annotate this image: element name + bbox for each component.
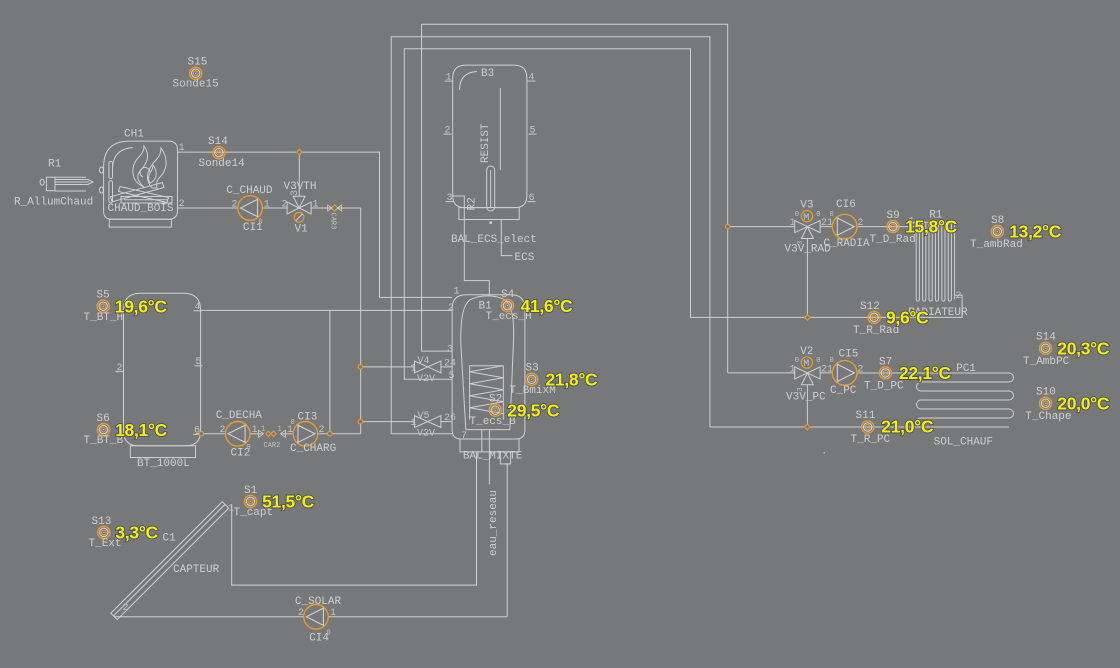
svg-text:3: 3: [290, 190, 301, 196]
svg-text:C_RADIA: C_RADIA: [823, 238, 870, 250]
wire vertical V1 outlet down to charge line: [360, 208, 362, 434]
resistor R1 R_AllumChaud ignition element: [14, 159, 93, 209]
svg-text:S7: S7: [879, 356, 892, 368]
check valve CAR2: [259, 425, 286, 449]
svg-text:2: 2: [857, 364, 863, 375]
svg-text:5: 5: [196, 357, 202, 368]
stray dot: [823, 452, 825, 454]
svg-text:13,2°C: 13,2°C: [1009, 222, 1062, 242]
wire eau_reseau stub: [488, 430, 490, 485]
svg-text:4: 4: [529, 72, 535, 83]
valve V4 V2V two-way: [411, 356, 441, 385]
svg-text:1: 1: [278, 425, 282, 433]
sensor S12: [853, 301, 929, 337]
svg-text:3: 3: [447, 193, 453, 204]
svg-text:21,0°C: 21,0°C: [881, 417, 934, 437]
svg-text:2: 2: [445, 125, 451, 136]
svg-text:6: 6: [529, 193, 535, 204]
svg-text:18,1°C: 18,1°C: [115, 420, 168, 440]
svg-text:1: 1: [454, 286, 460, 297]
pump C_PC CI5: [832, 361, 857, 386]
svg-text:V5: V5: [418, 411, 430, 422]
svg-text:2: 2: [857, 218, 863, 229]
wire B3 port3 down to BAL_MIXTE dome: [453, 196, 490, 297]
svg-text:V3: V3: [800, 200, 813, 212]
svg-text:M: M: [803, 213, 809, 224]
wire pipe-C tank port5 / radiator return loop: [404, 49, 962, 380]
svg-text:2: 2: [448, 303, 454, 314]
svg-text:3: 3: [447, 344, 453, 355]
wire solar pump line to collector bottom: [115, 616, 304, 618]
svg-text:2: 2: [298, 608, 304, 619]
wire branch to V3 port 1: [728, 226, 795, 228]
wire boiler supply to tank port 1: [178, 152, 453, 297]
wire V5 inlet and outlet to tank port 6: [360, 421, 414, 423]
svg-text:C_SOLAR: C_SOLAR: [295, 596, 342, 608]
svg-text:R2: R2: [467, 197, 479, 210]
svg-text:7: 7: [461, 431, 467, 442]
svg-text:24: 24: [444, 358, 456, 369]
svg-text:29,5°C: 29,5°C: [507, 401, 560, 421]
svg-text:CI6: CI6: [836, 199, 856, 211]
svg-text:S14: S14: [208, 136, 228, 148]
svg-text:S6: S6: [97, 413, 110, 425]
boiler flame icon: [133, 146, 166, 188]
svg-text:3,3°C: 3,3°C: [115, 523, 158, 543]
svg-text:21: 21: [821, 218, 833, 229]
svg-text:0: 0: [816, 211, 820, 219]
svg-text:CI3: CI3: [298, 412, 318, 424]
svg-text:5: 5: [449, 371, 455, 382]
svg-text:1: 1: [179, 143, 185, 154]
valve V3 V3V_RAD motorised 3-way: [785, 200, 834, 256]
sensor S14-boiler: [199, 136, 246, 170]
svg-text:R1: R1: [48, 159, 62, 171]
svg-text:R_AllumChaud: R_AllumChaud: [14, 196, 93, 208]
svg-text:BAL_ECS_elect: BAL_ECS_elect: [451, 234, 537, 246]
svg-text:S5: S5: [97, 290, 110, 302]
svg-text:1: 1: [261, 425, 265, 433]
svg-text:S10: S10: [1036, 387, 1056, 399]
radiator R1 RADIATEUR: [908, 209, 968, 318]
svg-text:CI5: CI5: [839, 349, 859, 361]
svg-text:3: 3: [797, 241, 805, 245]
svg-text:0: 0: [816, 357, 820, 365]
sensor S6: [84, 413, 168, 447]
svg-text:B3: B3: [481, 68, 494, 80]
svg-text:1: 1: [446, 72, 452, 83]
pump C_CHARG CI3: [293, 422, 318, 447]
svg-text:0: 0: [830, 211, 834, 219]
junction diamond boiler supply tee: [297, 149, 303, 155]
svg-text:V4: V4: [418, 356, 430, 367]
junction rings charge circuit: [358, 365, 363, 370]
svg-text:RESIST: RESIST: [480, 123, 492, 163]
svg-text:2: 2: [220, 425, 226, 436]
svg-text:ECS: ECS: [515, 252, 535, 264]
svg-text:C_CHAUD: C_CHAUD: [226, 185, 273, 197]
svg-text:1: 1: [411, 418, 417, 429]
svg-text:CAR2: CAR2: [264, 442, 281, 450]
solar collector C1 CAPTEUR: [111, 502, 234, 620]
check valve CAR3: [328, 205, 342, 230]
svg-text:CAR3: CAR3: [329, 213, 337, 230]
svg-text:1: 1: [790, 364, 796, 375]
wire pipe-B tank bottom / PC return loop: [391, 37, 710, 434]
wire tank interior drop to pedestal: [481, 430, 483, 452]
svg-text:0: 0: [247, 444, 251, 452]
svg-text:2: 2: [123, 603, 129, 614]
sensor S8: [970, 215, 1062, 251]
svg-text:CH1: CH1: [124, 128, 144, 140]
tank BT_1000L buffer: [124, 293, 201, 470]
boiler logs: [111, 183, 173, 204]
svg-text:20,0°C: 20,0°C: [1057, 393, 1110, 413]
svg-text:1: 1: [411, 363, 417, 374]
svg-text:0: 0: [327, 630, 331, 638]
svg-text:S3: S3: [526, 363, 539, 375]
pump C_DECHA CI2: [225, 422, 250, 447]
svg-text:CHAUD_BOIS: CHAUD_BOIS: [108, 203, 174, 215]
sensor S2: [470, 394, 560, 428]
svg-text:26: 26: [444, 413, 456, 424]
sensor S1: [234, 485, 315, 519]
svg-text:S2: S2: [489, 394, 502, 406]
svg-text:20,3°C: 20,3°C: [1057, 338, 1110, 358]
valve V5 V2V two-way: [411, 411, 441, 440]
svg-text:S8: S8: [991, 215, 1004, 227]
svg-text:S15: S15: [188, 57, 208, 69]
sensor S11: [851, 410, 934, 446]
svg-text:5: 5: [530, 125, 536, 136]
svg-text:C_CHARG: C_CHARG: [290, 443, 336, 455]
svg-text:51,5°C: 51,5°C: [262, 492, 315, 512]
svg-text:V2: V2: [800, 346, 813, 358]
junction diamond PC return: [805, 424, 811, 430]
svg-text:1: 1: [330, 608, 336, 619]
wire pipe-A heating supply loop: [422, 24, 728, 373]
boiler CH1 CHAUD_BOIS: [99, 128, 177, 227]
pump C_CHAUD CI1: [238, 196, 263, 221]
svg-text:C_PC: C_PC: [830, 385, 857, 397]
wire V3 bottom stem to radiator return: [806, 239, 808, 318]
svg-text:V1: V1: [295, 224, 309, 236]
wire tee down from BT top line to charge line: [329, 310, 331, 433]
svg-text:S14: S14: [1036, 332, 1056, 344]
tank B3 BAL_ECS_elect: [453, 65, 527, 219]
svg-text:21,8°C: 21,8°C: [546, 370, 599, 390]
sensor S9: [870, 210, 958, 246]
svg-text:1: 1: [287, 425, 293, 436]
svg-text:9,6°C: 9,6°C: [886, 308, 929, 328]
svg-text:2: 2: [956, 291, 962, 302]
svg-text:3: 3: [797, 387, 805, 391]
svg-text:21: 21: [821, 364, 833, 375]
valve V2 V3V_PC motorised 3-way: [786, 346, 833, 404]
svg-text:S9: S9: [887, 210, 900, 222]
tank B1 BAL_MIXTE outer shell: [452, 295, 525, 464]
svg-text:V3V_PC: V3V_PC: [786, 392, 826, 404]
svg-text:Sonde14: Sonde14: [199, 158, 246, 170]
svg-text:2: 2: [319, 425, 325, 436]
sensor S4: [486, 289, 574, 323]
svg-text:M: M: [803, 359, 809, 370]
svg-text:1: 1: [264, 199, 270, 210]
svg-text:2: 2: [117, 363, 123, 374]
B1 inner vessel: [461, 296, 514, 430]
svg-text:Sonde15: Sonde15: [173, 78, 219, 90]
wire stem to V3VTH top port 3: [298, 152, 300, 196]
sensor S3: [510, 363, 599, 397]
svg-text:CAPTEUR: CAPTEUR: [173, 564, 220, 576]
svg-text:2: 2: [179, 199, 185, 210]
svg-text:0: 0: [830, 357, 834, 365]
wire solar return: tank bottom to pump line: [506, 464, 508, 617]
wire boiler return pump line: [178, 207, 238, 209]
sensor S7: [864, 356, 951, 392]
svg-text:2: 2: [232, 199, 238, 210]
sensor S5: [84, 290, 168, 324]
svg-text:4: 4: [195, 302, 201, 313]
svg-text:C_DECHA: C_DECHA: [216, 410, 263, 422]
svg-text:SOL_CHAUF: SOL_CHAUF: [934, 437, 993, 449]
sensor S14-right: [1023, 332, 1110, 368]
svg-text:1: 1: [252, 425, 258, 436]
sensor S15: [173, 57, 219, 91]
svg-text:S11: S11: [856, 410, 876, 422]
valve V1 V3VTH thermostatic 3-way: [282, 181, 319, 235]
heating element R2 inside B3: [467, 88, 501, 224]
junction diamond radiator return: [805, 315, 811, 321]
svg-text:15,8°C: 15,8°C: [905, 217, 958, 237]
svg-text:eau_reseau: eau_reseau: [488, 490, 500, 556]
wire solar supply: collector top to tank bottom: [232, 452, 477, 585]
pump C_RADIA CI6: [832, 214, 857, 239]
wire V2 bottom stem to PC return: [806, 385, 808, 427]
svg-text:1: 1: [790, 218, 796, 229]
svg-text:19,6°C: 19,6°C: [115, 297, 168, 317]
svg-text:1: 1: [313, 199, 319, 210]
B1 solar coil heat exchanger: [470, 366, 504, 420]
sensor S13: [89, 516, 159, 550]
svg-text:2: 2: [282, 199, 288, 210]
svg-text:V2V: V2V: [417, 429, 435, 440]
svg-text:BAL_MIXTE: BAL_MIXTE: [463, 451, 523, 463]
wire V4 inlet and outlet to tank port 4: [360, 366, 414, 368]
svg-text:S4: S4: [501, 289, 515, 301]
pump C_SOLAR CI4: [304, 605, 329, 630]
wire BT_1000L port 4 to BAL_MIXTE port 2: [201, 309, 453, 311]
sensor S10: [1025, 387, 1110, 423]
svg-text:C1: C1: [163, 533, 177, 545]
svg-text:S1: S1: [244, 485, 258, 497]
svg-text:S13: S13: [92, 516, 112, 528]
svg-text:V2V: V2V: [417, 374, 435, 385]
wire PC supply line and floor coil SOL_CHAUF: [728, 372, 795, 374]
wire charge/discharge pump line: [196, 433, 226, 435]
svg-text:22,1°C: 22,1°C: [899, 363, 952, 383]
svg-text:0: 0: [259, 219, 263, 227]
junction ring heating supply tee: [725, 224, 730, 229]
wire radiator supply line: [820, 226, 832, 228]
wire ECS tap from B3 base: [501, 220, 512, 256]
svg-text:PC1: PC1: [956, 363, 976, 375]
svg-text:S12: S12: [860, 301, 880, 313]
svg-text:41,6°C: 41,6°C: [521, 296, 574, 316]
svg-text:BT_1000L: BT_1000L: [137, 458, 190, 470]
